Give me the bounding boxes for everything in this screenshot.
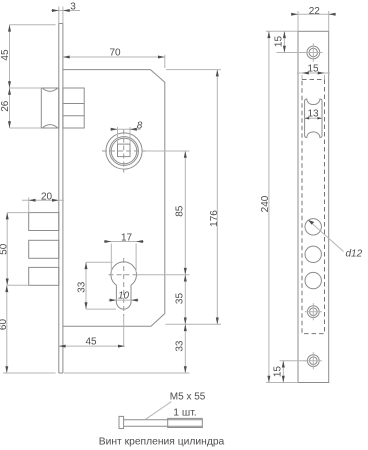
- cylinder centre extension line: [137, 274, 190, 276]
- dimension 22 (plate width): [291, 6, 336, 31]
- body bottom extension line: [166, 323, 222, 325]
- euro cylinder hole: [109, 258, 140, 316]
- dimension 45 (cylinder from faceplate): [59, 337, 125, 348]
- latch bolt front view: [305, 99, 322, 138]
- dimension 20 (deadbolt length): [22, 191, 64, 212]
- svg-text:45: 45: [85, 337, 97, 348]
- faceplate side view: [59, 24, 63, 374]
- svg-text:26: 26: [0, 100, 11, 112]
- dimension 176 (body height): [209, 70, 220, 325]
- svg-text:3: 3: [70, 1, 76, 12]
- svg-text:d12: d12: [346, 249, 363, 260]
- svg-text:15: 15: [274, 36, 285, 48]
- svg-text:85: 85: [174, 205, 185, 217]
- svg-text:10: 10: [118, 291, 130, 302]
- dimension 3 (faceplate thickness): [51, 1, 80, 23]
- dimension 50 (deadbolt group): [0, 213, 29, 286]
- svg-text:M5 x 55: M5 x 55: [170, 392, 206, 403]
- screw leader line: [145, 402, 172, 420]
- latch tail block: [63, 88, 84, 128]
- dimension 33 (cylinder height): [76, 262, 116, 309]
- dimension 15 (top screw hole): [274, 31, 307, 52]
- screw head: [119, 416, 124, 428]
- svg-text:15: 15: [307, 64, 319, 75]
- deadbolt 2: [29, 240, 59, 258]
- latch bolt (side view): [41, 88, 59, 128]
- svg-text:22: 22: [309, 6, 321, 17]
- dimension 15 (bottom screw hole): [273, 361, 308, 383]
- dimension 15 (cutout width): [297, 64, 330, 80]
- dimension 8 (spindle square): [111, 121, 143, 144]
- svg-text:1 шт.: 1 шт.: [173, 408, 197, 419]
- svg-text:240: 240: [260, 195, 271, 212]
- spindle hub: [102, 130, 146, 173]
- spindle centre extension line: [146, 150, 190, 152]
- lock body outline: [63, 70, 165, 327]
- svg-text:176: 176: [209, 210, 220, 227]
- svg-text:33: 33: [76, 281, 87, 293]
- svg-text:8: 8: [137, 121, 143, 132]
- svg-text:35: 35: [174, 293, 185, 305]
- striker plate front view: [298, 31, 329, 382]
- svg-text:Винт крепления цилиндра: Винт крепления цилиндра: [99, 436, 225, 447]
- svg-text:20: 20: [41, 191, 53, 202]
- dimension 13 (latch width): [305, 109, 322, 120]
- dimension 26 (latch height): [0, 88, 41, 128]
- svg-text:60: 60: [0, 319, 9, 331]
- dimension 70 (body width): [63, 47, 165, 68]
- dimension 45 (top left): [0, 25, 55, 88]
- faceplate bottom extension line: [64, 372, 190, 374]
- dimension 33 (body bottom to faceplate end): [174, 324, 187, 373]
- screw shaft: [124, 420, 203, 427]
- dimension 60 (bottom left): [0, 285, 56, 373]
- svg-text:33: 33: [174, 340, 185, 352]
- deadbolt hole 1: [305, 219, 321, 235]
- svg-text:15: 15: [273, 366, 284, 378]
- svg-text:45: 45: [0, 49, 11, 61]
- deadbolt 3: [29, 267, 59, 285]
- cylinder centreline down to 45 dim: [123, 316, 125, 346]
- top screw hole: [304, 43, 323, 62]
- bottom screw hole: [305, 352, 322, 369]
- svg-text:50: 50: [0, 243, 10, 255]
- dimension 35 (cylinder to body bottom): [174, 275, 187, 325]
- dimension 176 extension top: [166, 69, 221, 71]
- dimension 17 (cylinder diameter): [104, 233, 144, 273]
- plate bottom extension line: [266, 382, 297, 384]
- dimension 10 (cylinder stem width): [109, 291, 139, 302]
- plate top extension line: [266, 30, 298, 32]
- dimension 240 (plate height): [260, 31, 271, 382]
- dashed cutout rectangle: [302, 80, 325, 334]
- deadbolt hole 3: [305, 272, 321, 288]
- svg-text:70: 70: [109, 47, 121, 58]
- svg-text:13: 13: [307, 109, 319, 120]
- middle screw hole: [305, 303, 322, 320]
- d12 leader: [308, 220, 363, 260]
- dimension 85 (spindle to cylinder): [174, 151, 187, 275]
- screw thread: [168, 418, 203, 427]
- svg-text:17: 17: [121, 233, 133, 244]
- deadbolt hole 2: [305, 246, 321, 262]
- deadbolt 1: [29, 213, 59, 231]
